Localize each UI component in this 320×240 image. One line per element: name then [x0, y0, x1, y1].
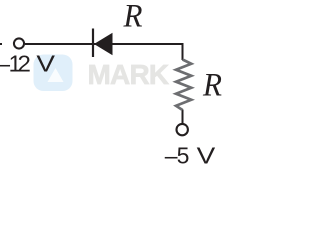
svg-text:–12V: –12V: [0, 51, 56, 77]
svg-text:R: R: [123, 0, 143, 35]
svg-text:R: R: [202, 68, 222, 104]
svg-text:MARK: MARK: [88, 59, 169, 90]
